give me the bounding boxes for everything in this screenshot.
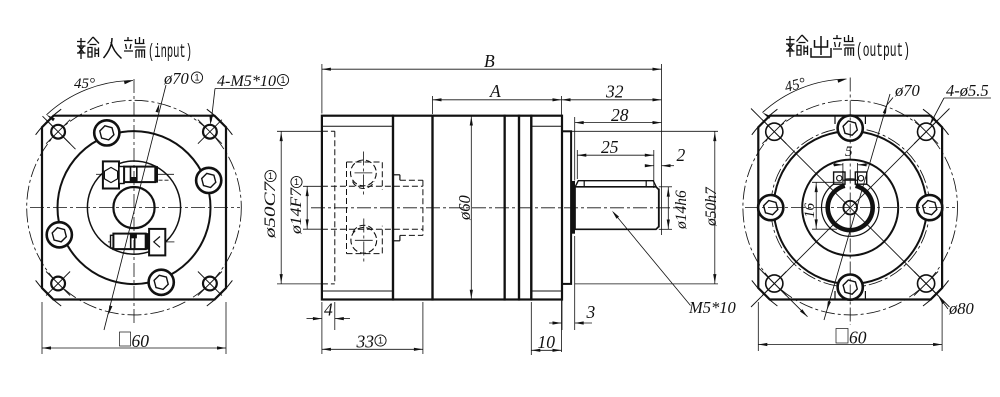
left view hex socket screw top — [94, 120, 119, 145]
svg-text:4-M5*10: 4-M5*10 — [217, 73, 276, 90]
right view phi70 dimension line — [824, 94, 890, 320]
access hole bottom — [351, 227, 377, 253]
left view bottom clamp screw — [108, 229, 174, 256]
left view square-60 dimension — [41, 302, 43, 354]
svg-text:45°: 45° — [74, 76, 95, 92]
dim 4 — [321, 302, 323, 354]
center tapped hole — [843, 201, 857, 215]
right view corner hole 5.5 bottom-left — [762, 272, 786, 296]
dim B — [321, 64, 323, 114]
right view corner hole 5.5 top-left — [762, 120, 786, 144]
middle view input flange — [322, 116, 393, 300]
svg-text:ø70: ø70 — [163, 69, 190, 88]
dim 16 — [812, 181, 842, 183]
leader line to top-right hole — [211, 89, 215, 122]
right view horizontal centerline — [745, 207, 955, 209]
right view vertical centerline — [849, 78, 851, 326]
hidden coupling cavity steps — [393, 174, 400, 176]
left view phi70 bolt circle — [27, 100, 242, 315]
right view hex socket screw right — [917, 195, 942, 220]
right view counterbore walls top/bottom screws — [834, 116, 836, 124]
dim 5 keyway — [842, 163, 844, 170]
dim 33 (1) — [422, 302, 424, 354]
left view top clamp screw — [96, 161, 174, 188]
right view square flange outline — [758, 116, 942, 300]
right view screw bolt circle — [771, 128, 930, 287]
svg-text:60: 60 — [132, 331, 150, 351]
bottom-left extra arrow line — [758, 267, 808, 317]
phi70 dim arrow top — [156, 104, 160, 113]
svg-text:60: 60 — [849, 328, 867, 348]
left view phi70 dimension line — [104, 85, 166, 330]
keyway slot lines — [842, 170, 844, 184]
leader shelf 4-M5*10 — [215, 88, 283, 90]
svg-text:32: 32 — [605, 82, 624, 102]
right view corner hole 5.5 top-right — [914, 120, 938, 144]
svg-text:4-ø5.5: 4-ø5.5 — [946, 81, 989, 100]
svg-text:(input): (input) — [148, 41, 192, 63]
right view hub circle — [802, 160, 898, 256]
middle view phi50h7 boss — [562, 131, 571, 284]
dim phi50h7 — [571, 130, 718, 132]
middle view horizontal centerline — [311, 207, 685, 209]
svg-text:ø50C7: ø50C7 — [262, 180, 279, 239]
svg-text:1: 1 — [268, 171, 273, 181]
right view hex socket screw left — [758, 195, 783, 220]
circlip ears — [834, 172, 845, 184]
svg-text:4: 4 — [324, 300, 333, 320]
svg-text:1: 1 — [194, 73, 199, 83]
input flange chamfer line bottom — [322, 290, 393, 292]
left view square flange outline — [42, 116, 226, 300]
dim phi14h6 — [659, 186, 672, 188]
svg-text:ø70: ø70 — [894, 81, 921, 100]
svg-text:1: 1 — [294, 177, 299, 187]
svg-text:25: 25 — [601, 137, 619, 157]
access hole top — [351, 160, 377, 186]
dim phi14F7 (1) — [306, 186, 308, 229]
output flange chamfer line bottom — [531, 290, 562, 292]
dim 10 — [530, 302, 532, 355]
right view corner diagonals — [751, 109, 950, 308]
title: shu-ru-duan (input) — [77, 37, 192, 63]
middle view gear housing body — [393, 116, 433, 300]
svg-text:2: 2 — [677, 145, 686, 165]
dim phi50C7 (1) — [280, 131, 282, 284]
hidden pocket depth line — [346, 162, 348, 254]
svg-text:33: 33 — [356, 332, 375, 352]
svg-text:3: 3 — [586, 302, 596, 322]
right view hex socket screw bottom — [838, 275, 863, 300]
right view 45deg dimension arc — [763, 79, 847, 113]
left view vertical centerline — [133, 79, 135, 326]
input flange chamfer line top — [322, 125, 393, 127]
left view corner hole M5 top-right — [198, 120, 222, 144]
svg-text:ø14F7: ø14F7 — [288, 187, 305, 236]
right view corner hole 5.5 bottom-right — [914, 272, 938, 296]
key on shaft — [575, 181, 656, 187]
svg-text:ø50h7: ø50h7 — [703, 186, 720, 227]
dim A and 32 — [432, 96, 434, 114]
dim 28 — [574, 117, 576, 181]
hidden phi50C7 recess dashed — [322, 130, 335, 132]
leader M5*10 — [614, 213, 691, 306]
left view corner hole M5 bottom-left — [46, 272, 70, 296]
shaft root collar (dark) — [571, 182, 574, 234]
access pocket top (hidden) — [347, 162, 383, 190]
dim 25 — [576, 150, 578, 179]
left view hex socket screw left — [47, 222, 72, 247]
left view phi80 corner arcs — [207, 280, 233, 306]
svg-text:M5*10: M5*10 — [688, 298, 736, 317]
svg-text:1: 1 — [280, 75, 285, 85]
left view horizontal centerline — [30, 207, 240, 209]
dim 3 — [561, 300, 563, 330]
leader arrow 4-M5*10 — [210, 116, 213, 125]
right view retaining ring (circlip) — [822, 179, 879, 236]
hidden cavity end — [422, 180, 424, 235]
middle view output shaft — [575, 187, 659, 230]
svg-text:ø60: ø60 — [455, 195, 474, 222]
right view phi70 bolt circle — [743, 100, 958, 315]
access pocket bottom (hidden) — [347, 226, 383, 254]
dim 2 — [646, 165, 654, 167]
svg-text:ø14h6: ø14h6 — [673, 190, 690, 230]
svg-text:1: 1 — [378, 336, 383, 346]
left view phi50 pilot bore circle — [58, 131, 211, 284]
right view hex socket screw top — [838, 116, 863, 141]
phi70 dim arrow bottom — [109, 305, 113, 314]
left view phi14 bore circle — [113, 187, 154, 228]
svg-text:(output): (output) — [856, 40, 910, 62]
output flange chamfer line top — [531, 125, 562, 127]
svg-text:5: 5 — [845, 144, 853, 160]
left view hex socket screw right — [196, 168, 221, 193]
right view phi80 corner arcs — [923, 280, 949, 306]
title: shu-chu-duan (output) — [786, 35, 910, 62]
svg-text:10: 10 — [538, 332, 556, 352]
dim phi60 — [470, 116, 472, 300]
right view phi50 boss circle — [774, 131, 927, 284]
left view 45deg dimension arc — [47, 81, 134, 115]
left view corner hole M5 top-left — [46, 120, 70, 144]
left view 45deg diagonal line — [43, 116, 76, 149]
svg-text:16: 16 — [802, 203, 818, 219]
middle view output flange — [531, 116, 562, 300]
left view clamp hub circle — [87, 161, 180, 254]
hidden phi14F7 bore dashed — [322, 185, 423, 187]
svg-text:B: B — [484, 51, 495, 71]
svg-text:28: 28 — [611, 105, 629, 125]
left view hex socket screw bottom — [149, 270, 174, 295]
svg-text:ø80: ø80 — [948, 299, 975, 318]
svg-text:A: A — [489, 81, 501, 101]
left view corner hole M5 bottom-right — [198, 272, 222, 296]
right view square-60 dimension — [757, 302, 759, 351]
